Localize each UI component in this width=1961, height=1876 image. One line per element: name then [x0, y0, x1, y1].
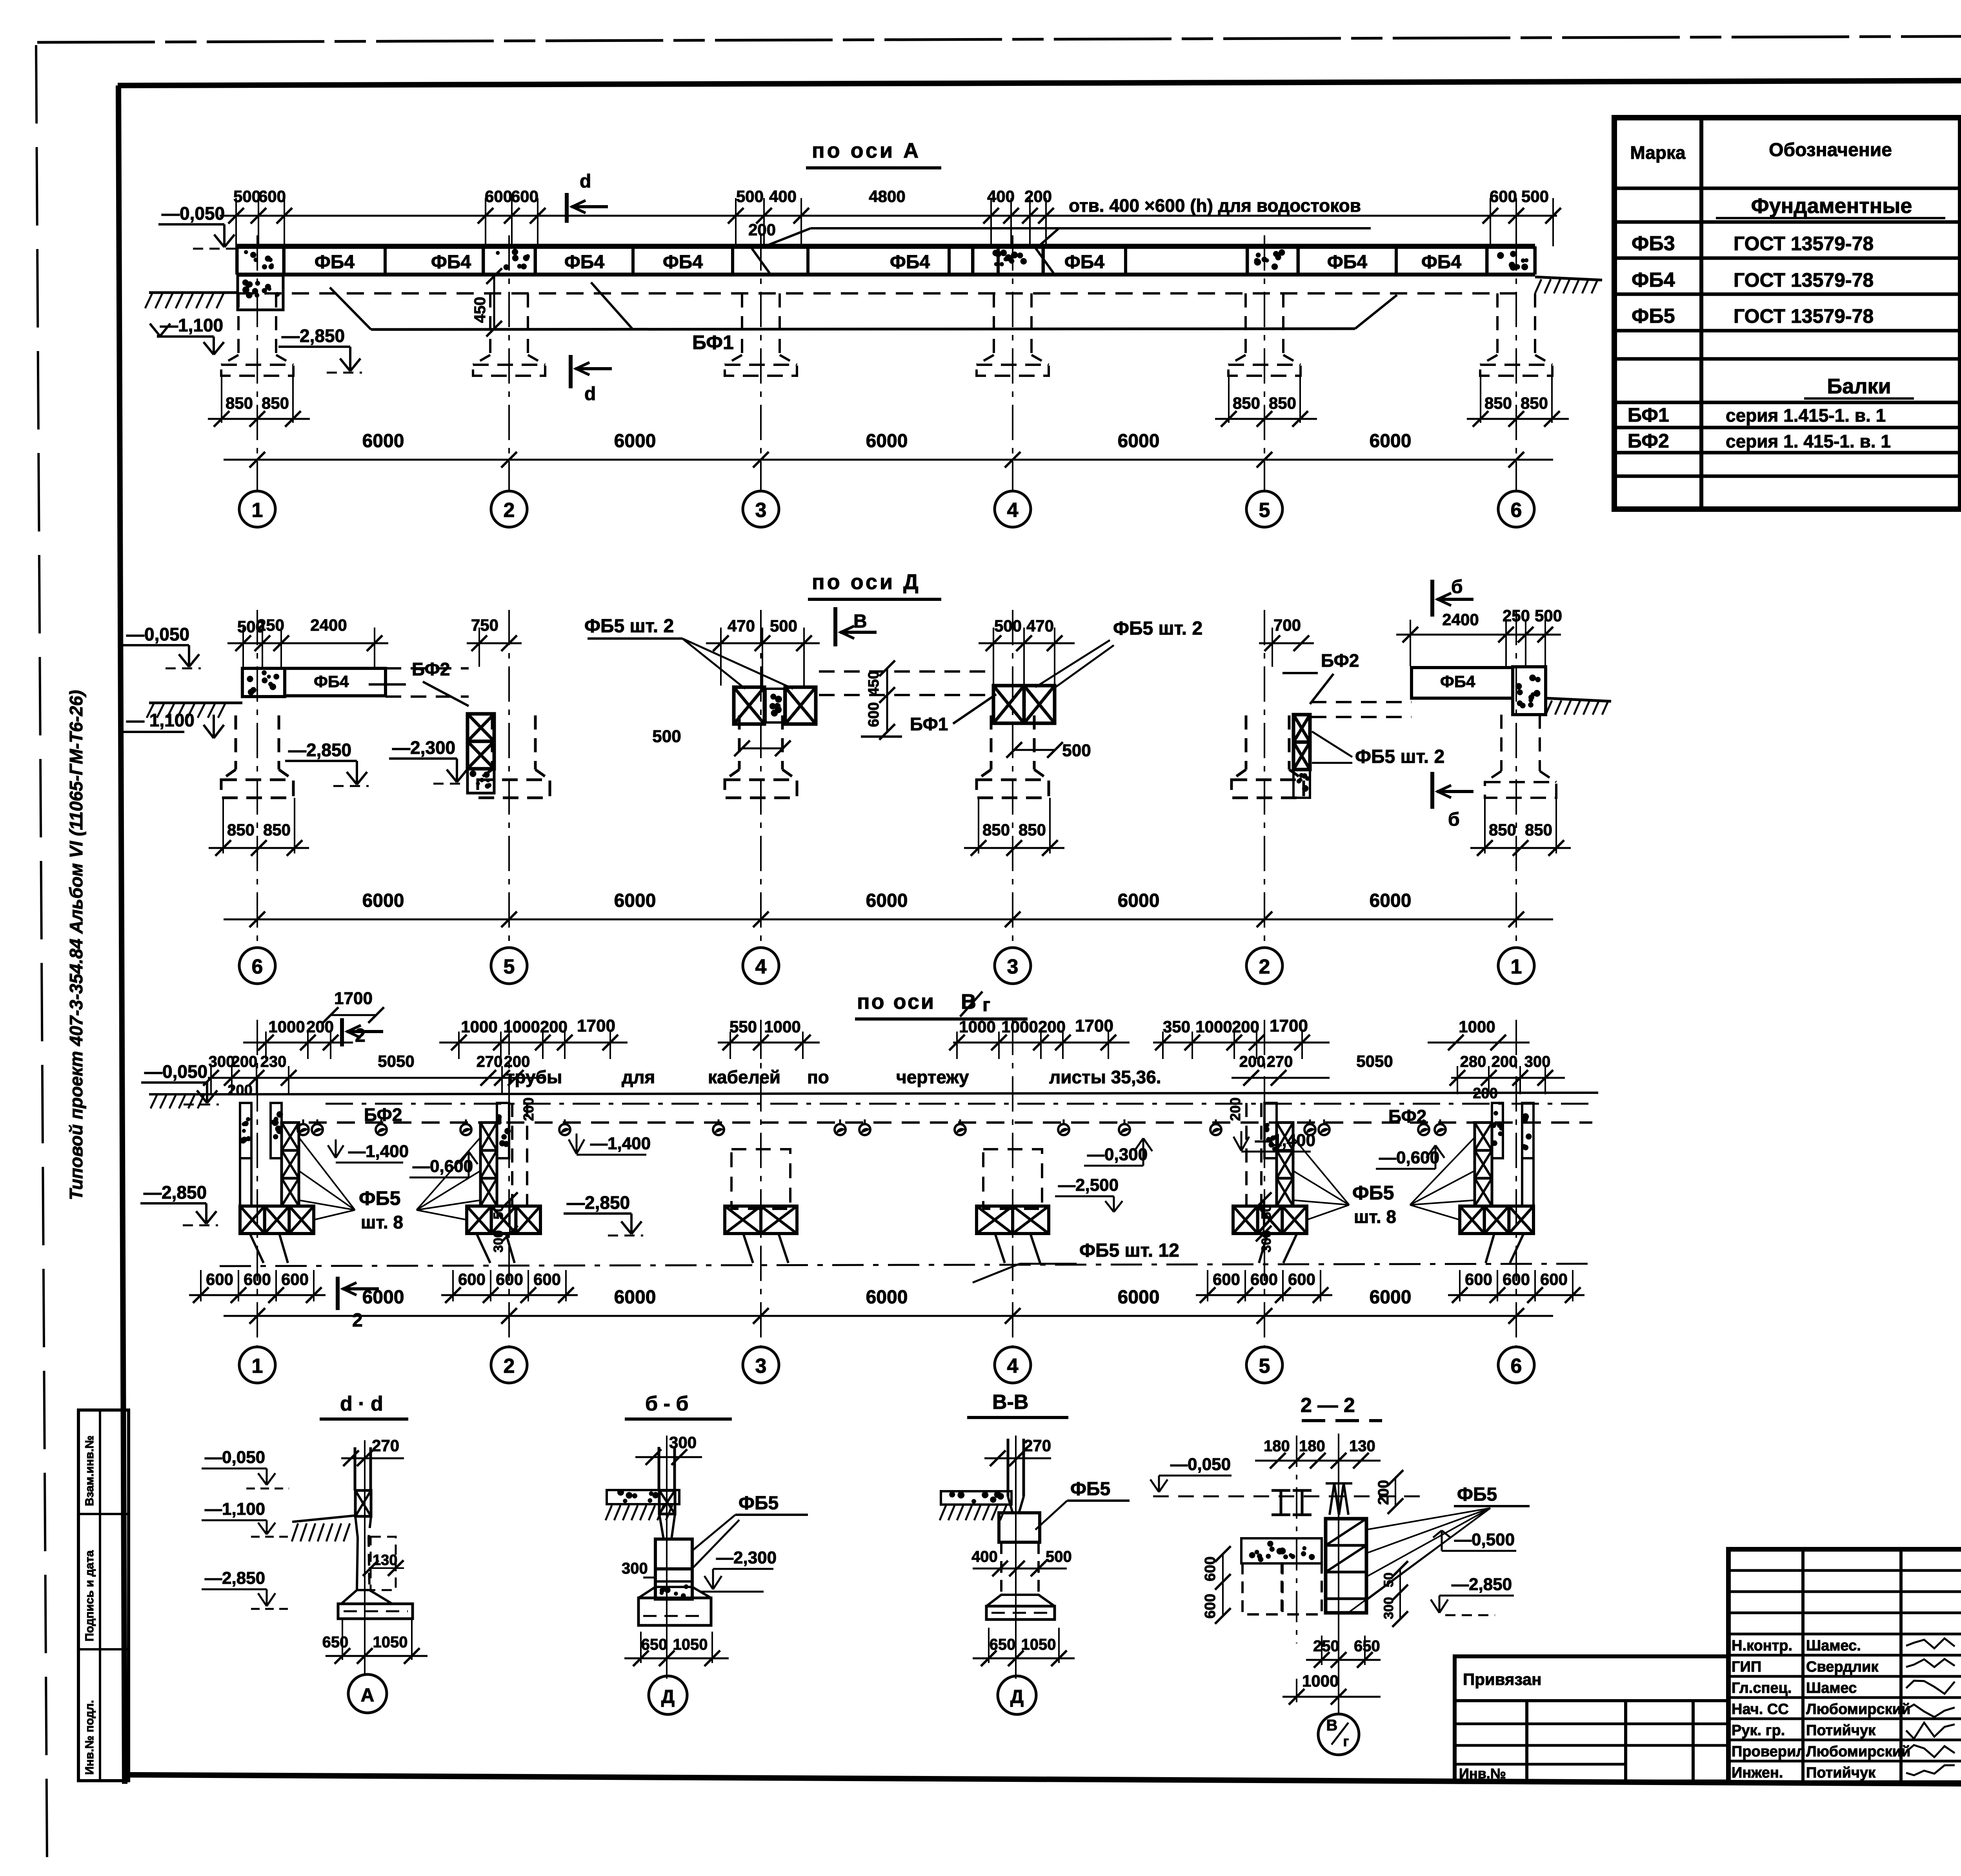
pedestal at axis 1 (Д): [1500, 715, 1503, 771]
svg-text:—2,850: —2,850: [1452, 1575, 1512, 1594]
svg-text:б: б: [1451, 577, 1463, 597]
svg-text:Инв.№: Инв.№: [1459, 1765, 1506, 1781]
svg-text:—1,100: —1,100: [205, 1499, 265, 1519]
svg-text:1: 1: [252, 1355, 263, 1377]
section marker d upper: [565, 193, 569, 223]
foundation pedestal (dashed) at x=656: [237, 293, 240, 355]
svg-text:серия 1. 415-1. в. 1: серия 1. 415-1. в. 1: [1726, 431, 1891, 451]
svg-text:270: 270: [477, 1053, 503, 1070]
svg-text:БФ2: БФ2: [1321, 650, 1359, 671]
svg-text:2: 2: [504, 499, 515, 522]
ground hatch left В/Г: [151, 1095, 157, 1108]
detail В-В dim 270: [984, 1457, 1051, 1459]
svg-text:4: 4: [1007, 1355, 1019, 1377]
svg-text:600: 600: [533, 1270, 561, 1288]
grid axis lines section В/Г: [256, 1020, 258, 1347]
svg-text:5: 5: [1259, 1355, 1270, 1377]
svg-text:ФБ4: ФБ4: [1440, 672, 1475, 691]
svg-text:230: 230: [260, 1053, 287, 1070]
svg-text:200: 200: [227, 1082, 252, 1099]
svg-text:по оси: по оси: [857, 990, 935, 1014]
svg-text:2400: 2400: [1442, 610, 1479, 629]
hidden beam lines axis 2 to 1: [1311, 701, 1412, 703]
svg-text:d: d: [580, 171, 591, 192]
dim 700 at axis 2: [1259, 642, 1314, 644]
detail Б-Б slab and ground: [607, 1490, 679, 1504]
svg-text:500: 500: [1062, 741, 1091, 760]
svg-text:Любомирский: Любомирский: [1806, 1701, 1910, 1718]
section marker 2 lower: [336, 1277, 340, 1310]
svg-text:ФБ4: ФБ4: [314, 672, 349, 691]
svg-text:Проверил: Проверил: [1732, 1743, 1805, 1760]
ФБ5 wall blocks at axis 5 (Д): [468, 714, 494, 741]
ground right section Д: [1546, 698, 1611, 701]
foundation pedestal (dashed) at x=3224: [1244, 293, 1247, 355]
svg-text:470: 470: [728, 617, 755, 635]
hidden БФ1 beam lines axes 4-3: [819, 670, 994, 673]
svg-text:по: по: [807, 1067, 829, 1087]
svg-text:1050: 1050: [1021, 1636, 1056, 1653]
spacing dimension line 6000 section В/Г: [224, 1315, 1553, 1317]
svg-text:200: 200: [1232, 1017, 1259, 1036]
monolith block below strip at axis 1: [238, 275, 283, 310]
spacing dimension line 6000 section A: [224, 459, 1553, 461]
drawing frame: [118, 79, 1961, 86]
svg-text:БФ1: БФ1: [692, 331, 734, 353]
svg-text:300: 300: [1524, 1053, 1551, 1070]
dims 500 250 2400 at axis 6: [227, 642, 388, 644]
svg-text:650: 650: [1354, 1638, 1380, 1655]
svg-text:d · d: d · d: [340, 1392, 383, 1415]
svg-text:1000: 1000: [1195, 1017, 1232, 1036]
svg-text:Шамес.: Шамес.: [1806, 1638, 1861, 1654]
support legs (В/Г) x=656: [250, 1234, 264, 1263]
svg-text:6000: 6000: [1370, 431, 1412, 451]
section marker В upper: [833, 607, 837, 646]
svg-text:1000: 1000: [1302, 1672, 1339, 1690]
detail d-d axis line: [364, 1440, 366, 1674]
svg-text:650: 650: [990, 1636, 1016, 1653]
svg-text:БФ2: БФ2: [1388, 1106, 1426, 1126]
svg-text:6000: 6000: [866, 890, 908, 911]
foundation pedestal (dashed) at x=3866: [1496, 293, 1499, 355]
svg-text:—1,400: —1,400: [348, 1142, 409, 1161]
foundation pedestal (dashed) at x=2582: [993, 293, 995, 355]
svg-text:Потийчук: Потийчук: [1806, 1765, 1876, 1781]
svg-text:1000: 1000: [959, 1017, 995, 1036]
svg-text:Рук. гр.: Рук. гр.: [1732, 1722, 1785, 1739]
detail 2-2 concrete strip: [1241, 1538, 1322, 1563]
svg-text:200: 200: [1227, 1097, 1243, 1121]
svg-text:1700: 1700: [1075, 1016, 1113, 1035]
svg-text:листы 35,36.: листы 35,36.: [1049, 1067, 1161, 1087]
svg-text:—0,050: —0,050: [126, 624, 189, 644]
detail Б-Б dim 650 1050: [640, 1632, 642, 1663]
hidden pedestal outline at axis (В/Г) x=1940: [731, 1149, 790, 1209]
ground left section Д: [149, 702, 242, 704]
ФБ5 base row at axis (В/Г) x=2582: [977, 1206, 1013, 1234]
svg-text:5: 5: [504, 955, 515, 978]
grid axis lines section A: [256, 235, 258, 491]
svg-text:ФБ5: ФБ5: [1457, 1484, 1497, 1505]
dotted plate at axis (В/Г) x=1298: [497, 1103, 509, 1158]
detail Б-Б grid circle Д: [649, 1676, 687, 1714]
svg-text:130: 130: [373, 1552, 397, 1568]
svg-text:130: 130: [1349, 1437, 1375, 1455]
spec table columns: [1699, 118, 1703, 509]
ФБ5 base row at axis (В/Г) x=1940: [725, 1206, 761, 1234]
svg-text:4: 4: [755, 955, 767, 978]
svg-text:470: 470: [1026, 617, 1054, 635]
svg-text:6000: 6000: [866, 431, 908, 451]
ground level line section В/Г: [208, 1093, 1598, 1094]
excavation dash-dot line В/Г: [220, 1264, 1592, 1266]
svg-text:—0,300: —0,300: [1087, 1145, 1148, 1164]
svg-text:кабелей: кабелей: [708, 1067, 780, 1087]
dim 850 850 under axis 5: [1228, 376, 1230, 423]
privyazan box: [1455, 1656, 1728, 1781]
svg-text:4800: 4800: [869, 187, 905, 206]
svg-text:Потийчук: Потийчук: [1806, 1722, 1876, 1739]
svg-text:200: 200: [1024, 187, 1052, 206]
svg-text:400: 400: [971, 1548, 998, 1565]
svg-text:650: 650: [641, 1636, 668, 1653]
svg-text:600: 600: [1202, 1594, 1219, 1618]
support legs (В/Г) x=3866: [1510, 1234, 1524, 1263]
svg-text:БФ2: БФ2: [1628, 430, 1669, 452]
hidden beam line БФ2 В/Г: [326, 1103, 1592, 1105]
svg-text:—2,850: —2,850: [282, 326, 345, 346]
svg-text:250: 250: [1313, 1638, 1339, 1655]
svg-text:Инжен.: Инжен.: [1732, 1765, 1783, 1781]
detail В-В footing: [986, 1595, 1055, 1606]
ФБ5 base row at axis (В/Г) x=3866: [1460, 1206, 1484, 1234]
svg-text:500: 500: [1046, 1548, 1072, 1565]
detail d-d dim 270: [341, 1457, 404, 1459]
svg-text:200: 200: [520, 1097, 537, 1121]
detail d-d ground wedge: [292, 1516, 355, 1522]
foundation pedestal (dashed) at x=656 section Д: [235, 715, 237, 770]
detail 2-2 level dashes: [1153, 1496, 1428, 1498]
svg-text:270: 270: [372, 1436, 399, 1455]
svg-text:трубы: трубы: [506, 1067, 562, 1087]
detail В-В slab and ground: [941, 1491, 1011, 1505]
svg-text:6000: 6000: [1370, 890, 1412, 911]
svg-text:—0,050: —0,050: [162, 203, 225, 224]
grid circles section Д: [239, 948, 275, 984]
svg-text:БФ2: БФ2: [412, 659, 450, 679]
svg-text:—0,500: —0,500: [1454, 1530, 1515, 1549]
svg-text:Инв.№ подл.: Инв.№ подл.: [83, 1700, 96, 1775]
svg-text:700: 700: [1273, 616, 1301, 634]
svg-text:2400: 2400: [310, 616, 347, 634]
svg-text:Любомирский: Любомирский: [1806, 1743, 1910, 1760]
svg-text:2: 2: [352, 1310, 363, 1331]
dim 850 850 under axis 1: [221, 376, 222, 423]
svg-text:ФБ5 шт. 12: ФБ5 шт. 12: [1079, 1240, 1179, 1261]
pipe line В/Г: [280, 1121, 1592, 1124]
grid axis lines section Д: [256, 610, 258, 942]
svg-text:ГОСТ 13579-78: ГОСТ 13579-78: [1734, 305, 1874, 327]
svg-text:600: 600: [1288, 1270, 1315, 1288]
dim 500 below axis 4: [742, 748, 783, 750]
svg-text:—1,400: —1,400: [590, 1134, 651, 1153]
signature table columns: [1801, 1549, 1805, 1783]
svg-text:1050: 1050: [673, 1636, 708, 1653]
svg-text:—2,850: —2,850: [144, 1182, 207, 1203]
foundation pedestal (dashed) at x=3224 section Д: [1245, 715, 1248, 770]
svg-text:5050: 5050: [378, 1052, 414, 1070]
svg-text:500: 500: [652, 727, 681, 746]
svg-text:БФ2: БФ2: [364, 1104, 402, 1125]
svg-text:550: 550: [729, 1017, 757, 1036]
svg-text:б: б: [1448, 809, 1460, 830]
svg-text:5: 5: [1259, 499, 1270, 522]
svg-text:6000: 6000: [362, 890, 404, 911]
hidden pedestal outline at axis (В/Г) x=2582: [983, 1149, 1042, 1209]
hidden beam lines axis6-5: [386, 667, 469, 670]
svg-text:ФБ4: ФБ4: [564, 252, 604, 273]
block and beam at axis 6: [242, 668, 285, 697]
support legs (В/Г) x=3224: [1283, 1234, 1297, 1263]
svg-text:d: d: [584, 384, 596, 404]
vertical dim 450 section A: [493, 276, 495, 329]
svg-text:ФБ5: ФБ5: [1352, 1182, 1394, 1204]
detail d-d dim 650 1050: [342, 1620, 343, 1660]
svg-text:600: 600: [281, 1270, 309, 1288]
detail Б-Б column: [658, 1447, 660, 1490]
hidden line below strip A: [237, 292, 1516, 295]
svg-text:чертежу: чертежу: [896, 1067, 969, 1087]
svg-text:600: 600: [1213, 1270, 1240, 1288]
svg-text:Гл.спец.: Гл.спец.: [1732, 1680, 1792, 1696]
detail d-d pit outline 130: [371, 1537, 396, 1590]
svg-text:180: 180: [1299, 1437, 1325, 1455]
svg-text:600: 600: [244, 1270, 271, 1288]
detail 2-2 I-beams: [1272, 1489, 1290, 1492]
svg-text:600: 600: [1465, 1270, 1492, 1288]
svg-text:200: 200: [306, 1017, 334, 1036]
svg-text:600: 600: [866, 702, 882, 727]
svg-text:В: В: [1326, 1717, 1338, 1734]
svg-text:6000: 6000: [614, 1287, 656, 1308]
svg-text:850: 850: [1269, 394, 1296, 412]
dim 500 below axis 3: [1014, 749, 1055, 751]
svg-text:ГИП: ГИП: [1732, 1659, 1761, 1675]
svg-text:6000: 6000: [866, 1287, 908, 1308]
svg-text:Марка: Марка: [1630, 142, 1686, 163]
detail d-d grid circle А: [348, 1674, 387, 1713]
svg-text:500: 500: [1521, 187, 1549, 206]
svg-text:200: 200: [1038, 1017, 1066, 1036]
svg-text:6000: 6000: [614, 431, 656, 451]
svg-text:600: 600: [1503, 1270, 1530, 1288]
svg-text:БФ1: БФ1: [1628, 404, 1669, 426]
svg-text:Шамес: Шамес: [1806, 1680, 1857, 1696]
svg-text:850: 850: [1019, 821, 1046, 839]
svg-text:200: 200: [748, 220, 776, 239]
detail В-В axis line: [1015, 1436, 1017, 1679]
detail В-В dims 400 500: [973, 1568, 1067, 1570]
svg-text:650: 650: [322, 1634, 349, 1651]
svg-text:ФБ3: ФБ3: [1632, 232, 1675, 255]
svg-text:750: 750: [471, 616, 498, 634]
svg-text:1050: 1050: [373, 1634, 408, 1651]
svg-text:6000: 6000: [1118, 431, 1160, 451]
svg-text:ФБ5 шт. 2: ФБ5 шт. 2: [1355, 746, 1444, 767]
svg-text:850: 850: [1489, 821, 1516, 839]
svg-text:Подпись и дата: Подпись и дата: [83, 1550, 96, 1641]
svg-text:1000: 1000: [764, 1017, 800, 1036]
dim 750 at axis 5: [467, 642, 522, 644]
dotted plate at axis (В/Г) x=3224: [1264, 1103, 1277, 1158]
ФБ5 base row at axis (В/Г) x=656: [240, 1206, 265, 1234]
outer scan border top: [37, 35, 1961, 42]
svg-text:500: 500: [233, 187, 261, 206]
svg-text:—0,050: —0,050: [144, 1061, 207, 1082]
grid circles section В/Г: [239, 1347, 275, 1383]
svg-text:—2,850: —2,850: [567, 1192, 630, 1213]
section marker б lower: [1430, 772, 1434, 809]
svg-text:850: 850: [1484, 394, 1512, 412]
svg-text:— 1,100: — 1,100: [126, 710, 195, 730]
pipes: [298, 1124, 309, 1135]
svg-text:Привязан: Привязан: [1463, 1670, 1541, 1689]
dotted concrete blocks in strip A: [238, 248, 282, 273]
foundation pedestal (dashed) at x=2582 section Д: [990, 715, 993, 770]
svg-text:по оси А: по оси А: [812, 139, 921, 162]
ground level right section A: [1535, 277, 1602, 280]
svg-text:3: 3: [755, 499, 767, 522]
svg-text:1000: 1000: [503, 1017, 540, 1036]
svg-text:850: 850: [227, 821, 255, 839]
svg-text:А: А: [361, 1685, 375, 1706]
dims 500 470 at axis 3: [979, 642, 1075, 644]
svg-text:270: 270: [1024, 1436, 1051, 1455]
svg-text:400: 400: [987, 187, 1015, 206]
ground level left section A: [149, 291, 237, 294]
dims 470 500 at axis 4: [706, 642, 820, 644]
svg-text:ФБ4: ФБ4: [315, 252, 355, 273]
hidden pedestal lines (В/Г) x=3224: [1260, 1103, 1262, 1206]
svg-text:—0,050: —0,050: [1170, 1455, 1231, 1474]
detail 2-2 dim 1000: [1282, 1696, 1381, 1698]
svg-text:600: 600: [485, 187, 512, 206]
svg-text:Свердлик: Свердлик: [1806, 1659, 1879, 1675]
svg-text:850: 850: [982, 821, 1010, 839]
svg-text:250: 250: [257, 616, 284, 634]
detail В-В block ФБ5: [999, 1513, 1040, 1542]
detail 2-2 dims 250 650: [1306, 1659, 1381, 1661]
detail В-В column: [1007, 1439, 1010, 1497]
svg-text:Типовой проект 407-3-354.: Типовой проект 407-3-354.84 Альбом VI (1…: [66, 690, 86, 1200]
svg-text:ГОСТ 13579-78: ГОСТ 13579-78: [1734, 233, 1874, 255]
svg-text:1000: 1000: [1001, 1017, 1038, 1036]
svg-text:300: 300: [622, 1560, 648, 1577]
svg-text:350: 350: [1163, 1017, 1190, 1036]
svg-text:—2,850: —2,850: [205, 1568, 265, 1588]
svg-text:300: 300: [209, 1053, 235, 1070]
svg-text:БФ1: БФ1: [910, 714, 948, 734]
foundation pedestal (dashed) at x=1940: [741, 293, 743, 355]
svg-text:ФБ4: ФБ4: [890, 252, 930, 273]
svg-text:6000: 6000: [1118, 1287, 1160, 1308]
svg-text:В: В: [853, 611, 867, 632]
svg-text:—2,850: —2,850: [288, 740, 351, 760]
detail d-d footing: [341, 1590, 392, 1604]
svg-text:850: 850: [262, 394, 289, 412]
svg-text:ФБ4: ФБ4: [663, 252, 703, 273]
svg-text:Фундаментные: Фундаментные: [1751, 194, 1912, 218]
svg-text:500: 500: [736, 187, 764, 206]
svg-text:Взам.инв.№: Взам.инв.№: [83, 1436, 96, 1506]
top dimension line section A: [220, 215, 1557, 217]
foundation pedestal (dashed) at x=1298 section Д: [491, 715, 494, 770]
svg-text:6000: 6000: [362, 431, 404, 451]
support legs (В/Г) x=1940: [743, 1234, 753, 1263]
svg-text:6000: 6000: [614, 890, 656, 911]
detail Б-Б blocks: [655, 1539, 692, 1569]
svg-text:2: 2: [355, 1025, 366, 1046]
svg-text:600: 600: [258, 187, 286, 206]
ФБ4 beam at axis 1 (Д): [1412, 668, 1513, 698]
svg-text:—0,050: —0,050: [205, 1448, 265, 1467]
ФБ5 base row at axis (В/Г) x=1298: [467, 1206, 491, 1234]
svg-text:850: 850: [1525, 821, 1552, 839]
svg-text:3: 3: [755, 1355, 767, 1377]
svg-text:400: 400: [769, 187, 797, 206]
svg-text:500: 500: [770, 617, 797, 635]
svg-text:6: 6: [252, 955, 263, 978]
section marker б upper: [1430, 580, 1434, 617]
outer scan border left: [36, 45, 47, 1861]
svg-text:Д: Д: [661, 1687, 675, 1707]
foundation blocks strip section A: [237, 244, 1535, 249]
svg-text:600: 600: [1540, 1270, 1568, 1288]
ФБ5 blocks at axis 3 (Д): [993, 686, 1024, 723]
svg-text:Д: Д: [1010, 1687, 1024, 1707]
svg-text:2: 2: [1259, 955, 1270, 978]
svg-text:серия 1.415-1. в. 1: серия 1.415-1. в. 1: [1726, 405, 1886, 426]
svg-text:200: 200: [1492, 1053, 1518, 1070]
svg-text:850: 850: [1521, 394, 1548, 412]
spacing dimension line 6000 section Д: [224, 919, 1553, 921]
svg-text:Обозначение: Обозначение: [1769, 140, 1892, 160]
grid circles section A: [239, 491, 275, 527]
svg-text:450: 450: [866, 671, 882, 695]
svg-text:600: 600: [1490, 187, 1517, 206]
detail 2-2 axis lines: [1296, 1436, 1297, 1643]
detail 2-2 dims 180 180 130: [1255, 1460, 1381, 1462]
svg-text:ФБ5: ФБ5: [359, 1187, 400, 1209]
svg-text:300: 300: [1381, 1597, 1396, 1619]
svg-text:270: 270: [1267, 1053, 1293, 1070]
svg-text:6000: 6000: [362, 1287, 404, 1308]
svg-text:шт. 8: шт. 8: [361, 1212, 403, 1232]
svg-text:1700: 1700: [1270, 1016, 1308, 1035]
foundation pedestal (dashed) at x=1298: [489, 293, 491, 355]
ФБ5 wall column at axis 2 (Д): [1293, 715, 1310, 742]
detail 2-2 grid circle В/г: [1318, 1714, 1359, 1755]
svg-text:ФБ5 шт. 2: ФБ5 шт. 2: [1113, 618, 1202, 639]
support legs (В/Г) x=1298: [477, 1234, 490, 1263]
svg-text:для: для: [622, 1067, 655, 1087]
svg-text:1000: 1000: [461, 1017, 497, 1036]
svg-text:г: г: [982, 995, 990, 1015]
svg-text:ФБ4: ФБ4: [1421, 252, 1461, 273]
left margin stamp table: [78, 1410, 129, 1781]
ФБ5 base row at axis (В/Г) x=3224: [1233, 1206, 1258, 1234]
